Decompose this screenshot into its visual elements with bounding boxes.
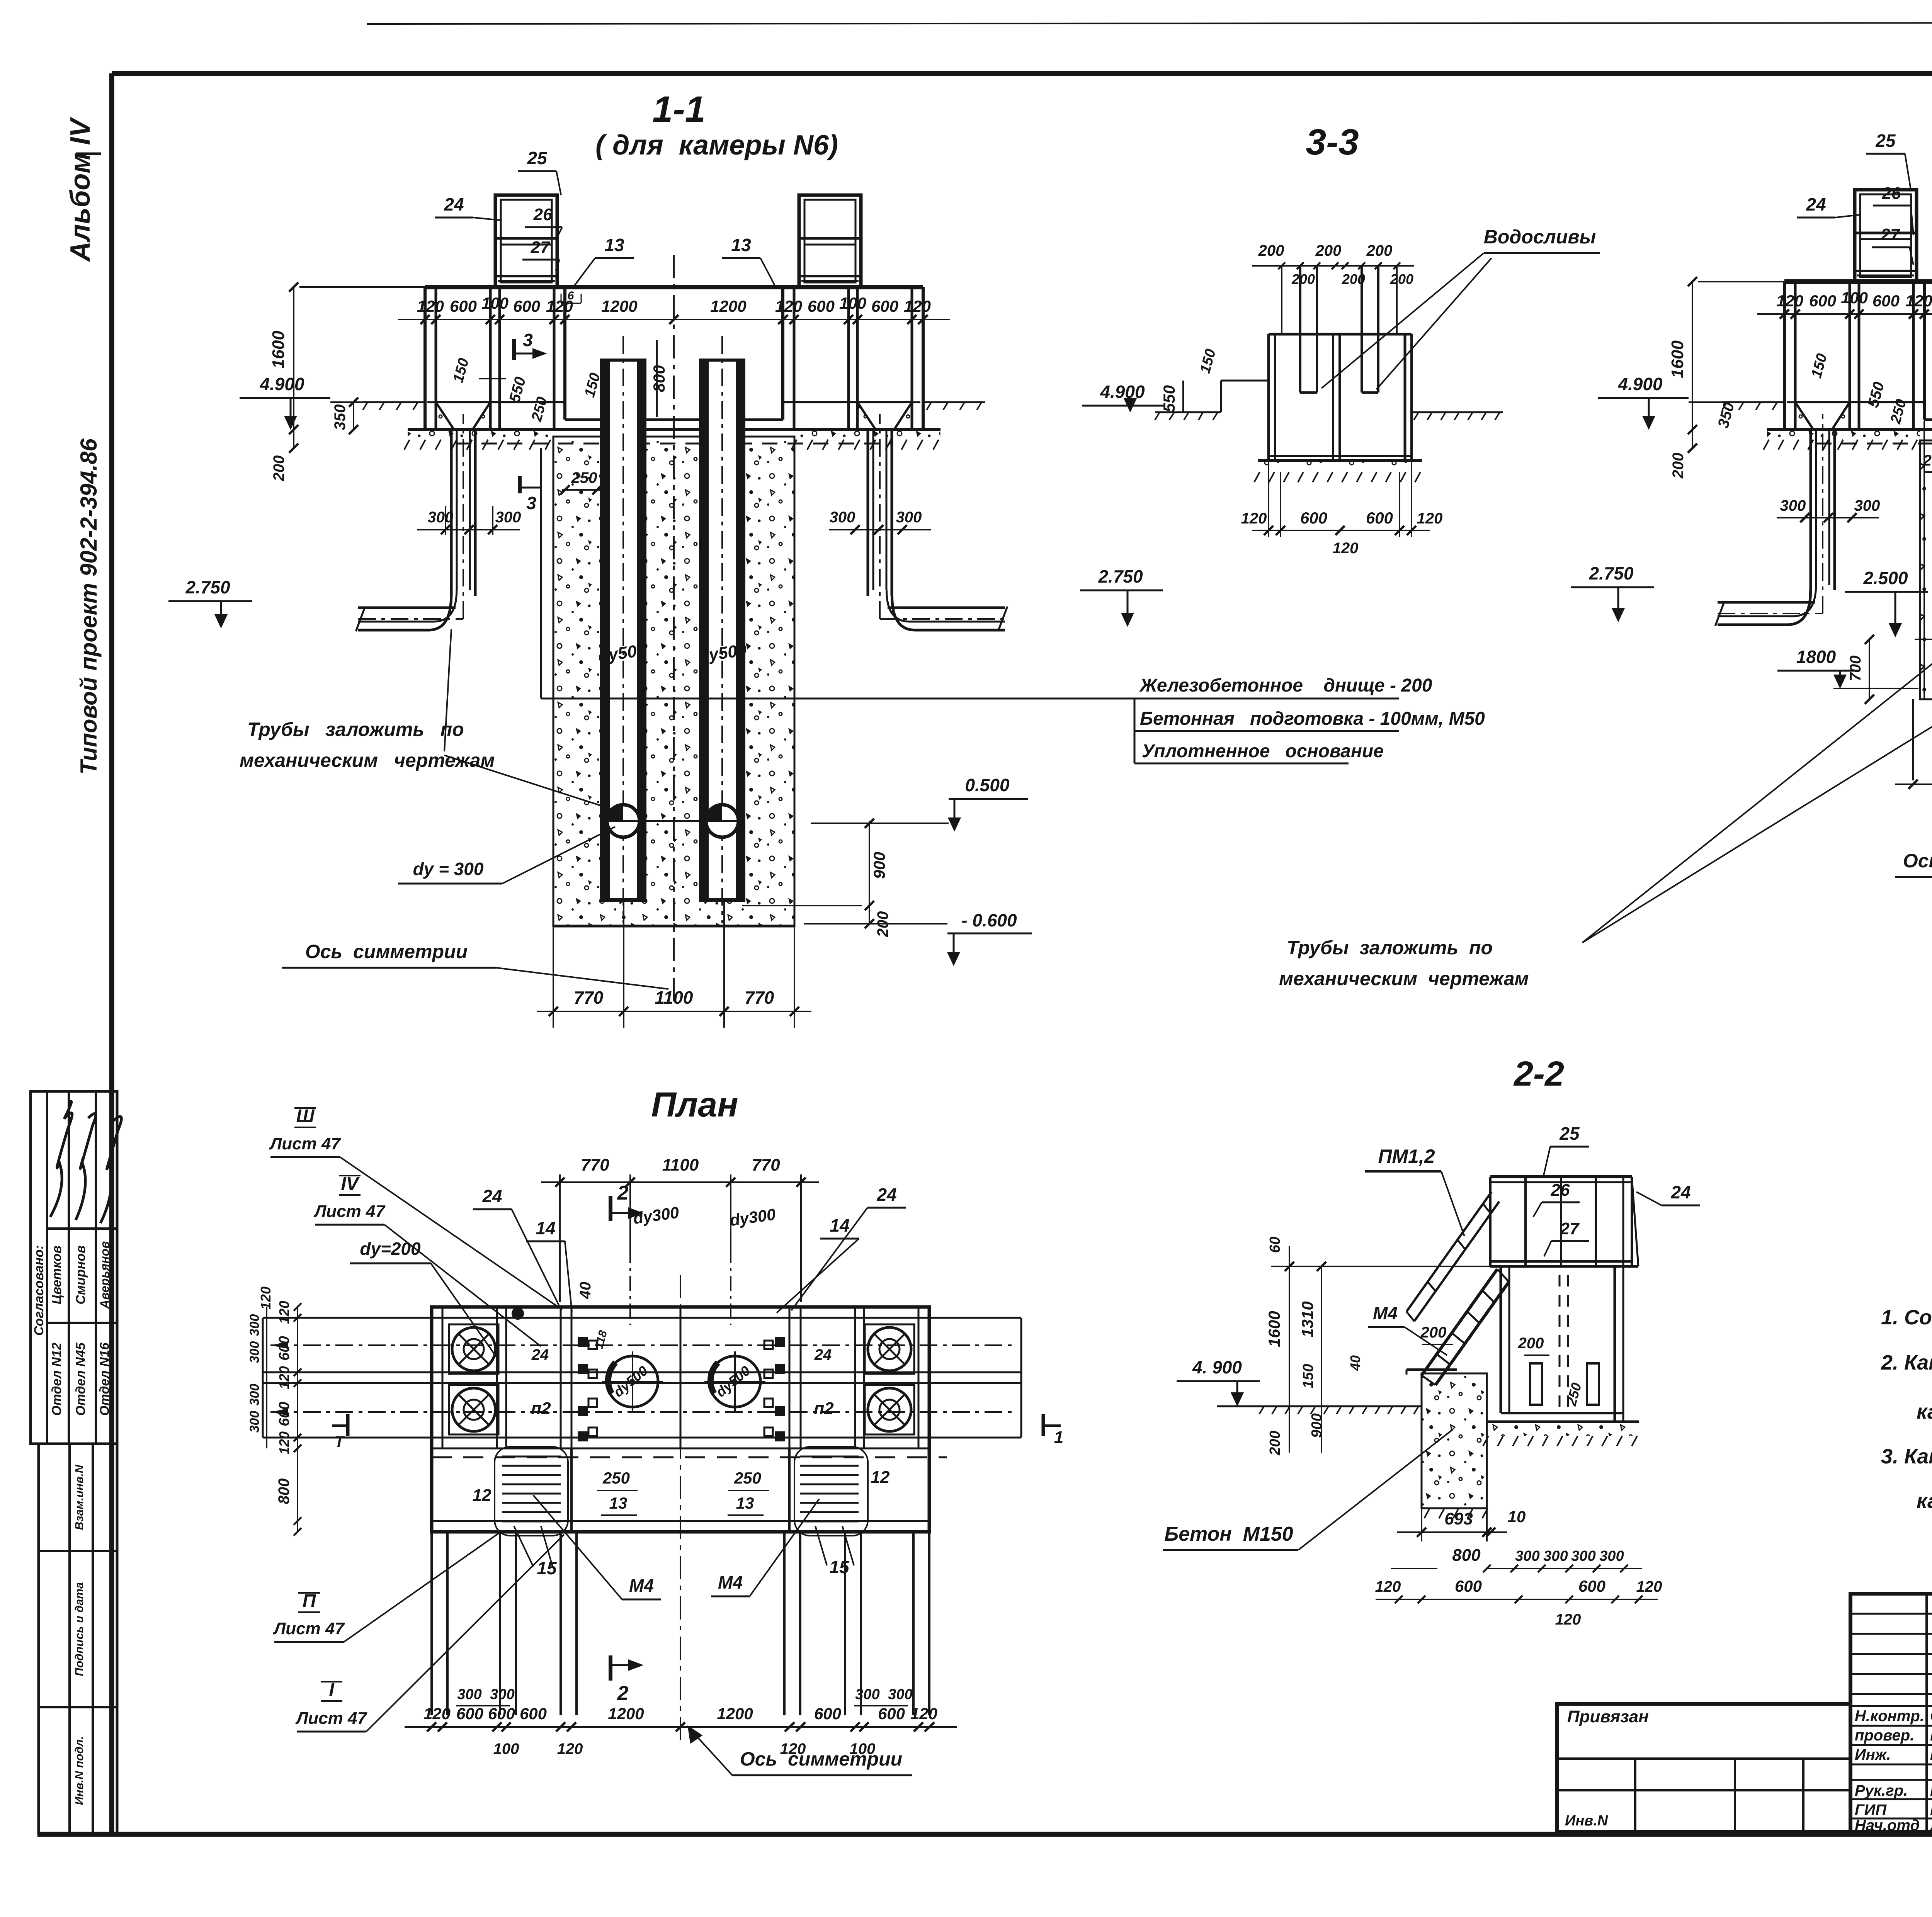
svg-text:Петропавловская: Петропавловская — [1930, 1750, 1932, 1762]
plan small squares inner walls — [588, 1341, 597, 1349]
2-2 concrete block — [1422, 1373, 1487, 1508]
svg-text:600: 600 — [808, 297, 835, 315]
svg-text:600: 600 — [1300, 509, 1327, 527]
svg-text:300: 300 — [1571, 1548, 1595, 1564]
svg-text:1200: 1200 — [710, 297, 746, 315]
svg-text:120: 120 — [910, 1705, 937, 1723]
ground surface marks — [363, 403, 367, 410]
plan hatch squares — [578, 1337, 588, 1347]
inlet funnel hopper — [427, 401, 499, 403]
svg-text:провер.: провер. — [1855, 1727, 1914, 1744]
svg-text:300: 300 — [830, 509, 855, 526]
svg-text:25: 25 — [1559, 1123, 1580, 1144]
2-2 foundation strip — [1487, 1424, 1639, 1436]
svg-text:600: 600 — [1809, 292, 1836, 310]
plan top dims 770 1100 770 — [559, 1174, 561, 1302]
stamp signatures — [50, 1101, 72, 1217]
svg-text:600: 600 — [1455, 1577, 1482, 1595]
dims 300 300 left — [417, 529, 520, 530]
svg-text:300: 300 — [855, 1686, 879, 1703]
title block signature grid — [1850, 1594, 1932, 1832]
svg-text:3. Камера N12 расход акти: 3. Камера N12 расход активного ила на — [1881, 1445, 1932, 1468]
svg-text:300: 300 — [490, 1686, 514, 1703]
svg-text:12: 12 — [473, 1486, 492, 1505]
plan outer walls — [432, 1307, 929, 1532]
svg-text:200: 200 — [1518, 1335, 1544, 1352]
svg-text:300: 300 — [1854, 497, 1880, 514]
plan section 1-1 cut marks — [346, 1414, 350, 1436]
svg-text:Сапунова: Сапунова — [1930, 1708, 1932, 1725]
channel floors — [1795, 401, 1924, 403]
svg-text:Альтшуллер: Альтшуллер — [1930, 1820, 1932, 1833]
svg-text:300: 300 — [1599, 1548, 1624, 1564]
svg-text:dy = 300: dy = 300 — [413, 859, 484, 879]
svg-text:2.750: 2.750 — [185, 577, 230, 597]
2-2 left dims — [1289, 1246, 1290, 1453]
svg-text:Инж.: Инж. — [1855, 1746, 1891, 1763]
svg-text:200: 200 — [1366, 242, 1393, 259]
plan ladders M4 — [502, 1456, 561, 1458]
dims 300 300 left pair — [1777, 517, 1879, 518]
ground surface marks — [1259, 1407, 1264, 1414]
ground surface marks — [1414, 413, 1418, 420]
leaders to outlet holes — [1582, 639, 1932, 943]
svg-text:1600: 1600 — [269, 331, 288, 369]
svg-text:300: 300 — [888, 1686, 912, 1703]
svg-text:600: 600 — [1872, 292, 1900, 310]
svg-text:27: 27 — [1560, 1219, 1580, 1238]
plan channel centerlines with flow — [270, 1344, 1012, 1346]
bottom dimension 770 1100 770 — [553, 926, 554, 1028]
svg-text:Гарбуз: Гарбуз — [1930, 1782, 1932, 1799]
svg-text:24: 24 — [1806, 194, 1826, 214]
svg-text:300: 300 — [896, 509, 922, 526]
svg-text:dy=200: dy=200 — [360, 1239, 421, 1259]
pipe centerline — [1718, 613, 1823, 614]
svg-text:Лист 47: Лист 47 — [273, 1619, 345, 1638]
3-3 footing — [1258, 461, 1422, 472]
section cut flag 3 upper — [512, 339, 516, 360]
svg-text:800: 800 — [276, 1479, 293, 1504]
svg-text:п2: п2 — [531, 1399, 551, 1418]
svg-text:600: 600 — [1366, 509, 1393, 527]
dim 350 — [353, 402, 354, 430]
svg-text:693: 693 — [1444, 1509, 1473, 1528]
3-3 bottom dims — [1268, 461, 1269, 537]
svg-text:1100: 1100 — [662, 1156, 699, 1174]
svg-text:200: 200 — [1258, 242, 1284, 259]
svg-text:2.500: 2.500 — [1863, 568, 1908, 588]
paper top edge — [367, 22, 1932, 24]
svg-text:4.900: 4.900 — [259, 374, 304, 394]
outside ground ledge right — [923, 401, 985, 403]
svg-text:Аверьянов: Аверьянов — [98, 1241, 112, 1309]
svg-text:Привязан: Привязан — [1567, 1707, 1649, 1726]
svg-text:25: 25 — [527, 148, 548, 168]
ground surface marks — [927, 403, 931, 410]
svg-text:1800: 1800 — [1796, 647, 1836, 667]
chamber wall lines through block — [1923, 421, 1925, 699]
plan shaft circles left — [452, 1327, 495, 1371]
inlet funnel hopper — [849, 401, 920, 403]
svg-text:4.900: 4.900 — [1100, 382, 1145, 402]
svg-text:600: 600 — [520, 1705, 547, 1723]
stamp table sign-off block — [31, 1091, 117, 1444]
shallow concrete block — [1920, 440, 1932, 699]
svg-text:120: 120 — [775, 297, 802, 315]
svg-text:1600: 1600 — [1668, 340, 1687, 378]
2-2 platform deck — [1490, 1175, 1632, 1178]
3-3 box walls — [1267, 334, 1270, 461]
section top slab line — [425, 285, 923, 289]
svg-text:Железобетонное днище - 200: Железобетонное днище - 200 — [1139, 675, 1432, 696]
svg-text:120: 120 — [417, 297, 444, 315]
2-2 ladder — [1422, 1269, 1497, 1375]
svg-text:М4: М4 — [718, 1572, 743, 1592]
svg-text:ГИП: ГИП — [1855, 1801, 1887, 1818]
svg-text:200: 200 — [270, 455, 287, 482]
svg-text:I: I — [329, 1680, 335, 1700]
svg-text:Трубы заложить по: Трубы заложить по — [247, 719, 464, 740]
svg-text:1-1: 1-1 — [652, 89, 705, 130]
svg-text:Рук.гр.: Рук.гр. — [1855, 1782, 1908, 1799]
svg-text:( для камеры N6): ( для камеры N6) — [595, 130, 838, 161]
svg-text:2-2: 2-2 — [1513, 1055, 1564, 1093]
svg-text:900: 900 — [870, 852, 888, 879]
svg-text:Ш: Ш — [296, 1106, 315, 1127]
svg-text:Цветков: Цветков — [49, 1246, 64, 1304]
svg-text:600: 600 — [450, 297, 477, 315]
svg-text:Уплотненное основание: Уплотненное основание — [1142, 741, 1384, 761]
svg-text:26: 26 — [1551, 1181, 1570, 1200]
dimension row — [1757, 313, 1932, 315]
svg-text:3: 3 — [523, 330, 533, 350]
plan left dim column — [297, 1307, 298, 1532]
svg-text:200: 200 — [1420, 1324, 1447, 1341]
outside ground ledge left — [363, 401, 425, 403]
3-3 weir channels — [1299, 266, 1301, 393]
svg-text:Н.контр.: Н.контр. — [1855, 1708, 1924, 1725]
chimney box element 25/26/27 — [495, 195, 557, 287]
svg-text:800: 800 — [650, 365, 668, 392]
svg-text:2.750: 2.750 — [1588, 563, 1634, 583]
svg-text:Подпись и дата: Подпись и дата — [73, 1582, 86, 1676]
svg-text:120: 120 — [780, 1740, 806, 1757]
svg-text:120: 120 — [423, 1705, 451, 1723]
svg-text:24: 24 — [876, 1185, 896, 1205]
svg-text:300: 300 — [1543, 1548, 1568, 1564]
svg-text:300: 300 — [1780, 497, 1806, 514]
svg-text:Бетон М150: Бетон М150 — [1164, 1523, 1293, 1545]
svg-text:24: 24 — [482, 1186, 502, 1206]
svg-text:250: 250 — [734, 1469, 761, 1487]
ground hatch — [791, 440, 797, 450]
riser pipe with elbow — [450, 430, 453, 596]
svg-text:200: 200 — [1291, 271, 1315, 287]
svg-text:24: 24 — [1670, 1182, 1690, 1202]
svg-text:М4: М4 — [1373, 1303, 1398, 1323]
svg-text:26: 26 — [533, 205, 553, 224]
pipe centerline — [358, 618, 463, 620]
svg-text:камеру. до 90: камеру. до 90 — [1917, 1400, 1932, 1423]
2-2 chamber walls — [1500, 1266, 1502, 1413]
svg-text:550: 550 — [1160, 385, 1178, 412]
svg-text:120: 120 — [1905, 292, 1932, 310]
svg-text:770: 770 — [574, 987, 604, 1008]
svg-text:250: 250 — [1923, 452, 1932, 469]
svg-text:Лист 47: Лист 47 — [313, 1202, 386, 1221]
svg-text:150: 150 — [1300, 1364, 1316, 1388]
svg-text:1: 1 — [1054, 1428, 1063, 1447]
svg-text:Водосливы: Водосливы — [1484, 226, 1596, 248]
axis of symmetry centerline — [673, 255, 675, 1004]
dims 300 300 right — [829, 529, 931, 530]
svg-text:Инв.N подл.: Инв.N подл. — [73, 1736, 86, 1805]
section walls — [423, 287, 427, 430]
ground surface marks — [1722, 403, 1726, 410]
svg-text:2. Камера N6 - расход активн: 2. Камера N6 - расход активного ила на — [1881, 1351, 1932, 1374]
svg-text:10: 10 — [1508, 1507, 1526, 1526]
svg-text:100: 100 — [493, 1740, 519, 1757]
channel floors — [436, 401, 565, 403]
svg-text:60: 60 — [1267, 1237, 1283, 1253]
svg-text:770: 770 — [581, 1156, 609, 1174]
svg-text:13: 13 — [731, 235, 751, 255]
svg-text:120: 120 — [276, 1301, 292, 1324]
dimension row — [405, 1726, 957, 1728]
section walls — [1783, 282, 1786, 430]
svg-text:Альбом IV: Альбом IV — [65, 116, 96, 262]
svg-text:механическим чертежам: механическим чертежам — [1279, 968, 1529, 989]
svg-text:Ось симметрии: Ось симметрии — [305, 941, 468, 962]
svg-text:1310: 1310 — [1298, 1301, 1316, 1337]
left vertical dims 1600 200 — [293, 287, 294, 448]
svg-text:ПМ1,2: ПМ1,2 — [1378, 1145, 1435, 1167]
svg-text:770: 770 — [752, 1156, 780, 1174]
svg-text:250: 250 — [571, 469, 597, 486]
dimension row — [398, 319, 950, 320]
svg-text:300: 300 — [247, 1384, 262, 1406]
svg-text:600: 600 — [488, 1705, 515, 1723]
column bottom line — [553, 925, 794, 928]
2-2 ground left — [1217, 1405, 1422, 1407]
svg-text:100: 100 — [481, 294, 509, 312]
plan left wing channels — [263, 1317, 432, 1319]
svg-text:40: 40 — [1347, 1355, 1363, 1371]
svg-text:300: 300 — [495, 509, 521, 526]
svg-text:IV: IV — [341, 1174, 360, 1194]
svg-text:300: 300 — [428, 509, 454, 526]
svg-text:15: 15 — [537, 1558, 557, 1578]
svg-text:камеру до 90: камеру до 90 — [1917, 1489, 1932, 1513]
svg-text:27: 27 — [531, 238, 551, 257]
svg-text:600: 600 — [871, 297, 898, 315]
svg-text:120: 120 — [904, 297, 931, 315]
svg-text:Бетонная подготовка - 100мм,: Бетонная подготовка - 100мм, М50 — [1140, 709, 1485, 729]
plan vertical wall lines — [442, 1307, 444, 1448]
svg-text:300: 300 — [247, 1411, 262, 1433]
svg-text:200: 200 — [1342, 271, 1365, 287]
svg-text:Нач.отд: Нач.отд — [1855, 1817, 1920, 1834]
svg-text:Смирнов: Смирнов — [73, 1245, 88, 1304]
svg-text:200: 200 — [874, 911, 891, 938]
svg-text:600: 600 — [1578, 1577, 1605, 1595]
leader lines to pipe and hole — [444, 755, 620, 812]
shaft right dy500 — [699, 360, 745, 898]
svg-text:3: 3 — [526, 493, 536, 513]
svg-text:200: 200 — [1267, 1431, 1283, 1455]
svg-text:24: 24 — [444, 194, 464, 214]
svg-text:Ось симметрии: Ось симметрии — [1903, 850, 1932, 872]
plan shaft circles right — [868, 1327, 911, 1371]
2-2 ladder railing — [1406, 1192, 1492, 1312]
title block left attachment box — [1557, 1704, 1850, 1832]
outlet hole dy300 left — [607, 805, 639, 837]
svg-text:2: 2 — [617, 1682, 629, 1705]
svg-text:Отдел N45: Отдел N45 — [73, 1342, 88, 1416]
pipe centerline — [880, 618, 1005, 620]
ground hatch — [1483, 1436, 1488, 1446]
svg-text:Инв.N: Инв.N — [1565, 1813, 1609, 1829]
dashed recess line — [1816, 443, 1932, 445]
svg-text:120: 120 — [1555, 1611, 1581, 1628]
svg-text:12: 12 — [871, 1468, 890, 1487]
svg-text:120: 120 — [1333, 540, 1359, 557]
chimney box element 25/26/27 — [1855, 190, 1917, 282]
svg-text:Лист 47: Лист 47 — [269, 1134, 341, 1153]
svg-text:- 0.600: - 0.600 — [961, 910, 1017, 930]
svg-text:700: 700 — [1847, 656, 1864, 681]
sheet border frame — [112, 71, 1932, 76]
svg-text:3-3: 3-3 — [1306, 122, 1359, 163]
plan horizontal wall lines — [432, 1317, 929, 1319]
svg-text:120: 120 — [276, 1431, 292, 1455]
shaft left dy500 — [600, 360, 646, 898]
svg-text:200: 200 — [1390, 271, 1413, 287]
2-2 chamber centerline dashed — [1559, 1275, 1561, 1414]
svg-text:13: 13 — [609, 1494, 628, 1512]
block bottom dims 770 1100 770 — [1912, 699, 1914, 780]
deep concrete column — [553, 437, 794, 926]
svg-text:120: 120 — [258, 1286, 274, 1310]
chimney box element 25/26/27 — [799, 195, 861, 287]
svg-text:1600: 1600 — [1265, 1311, 1283, 1347]
svg-text:13: 13 — [736, 1494, 754, 1512]
svg-text:200: 200 — [1670, 453, 1687, 479]
svg-text:0.500: 0.500 — [965, 775, 1010, 795]
svg-text:2.750: 2.750 — [1098, 566, 1143, 586]
plan right wing channels — [929, 1317, 1021, 1319]
plan lower channel dashed centerline — [432, 1456, 947, 1458]
svg-text:300: 300 — [1515, 1548, 1539, 1564]
svg-text:25: 25 — [1875, 131, 1896, 151]
svg-text:300: 300 — [247, 1341, 262, 1363]
shaft bottom caps — [600, 898, 646, 902]
inlet funnel hopper — [1787, 401, 1858, 403]
svg-text:Отдел N12: Отдел N12 — [49, 1343, 64, 1416]
stamp table inventory block — [39, 1444, 117, 1834]
svg-text:План: План — [651, 1086, 738, 1124]
svg-text:200: 200 — [1315, 242, 1342, 259]
svg-text:механическим чертежам: механическим чертежам — [240, 749, 495, 771]
svg-text:4. 900: 4. 900 — [1192, 1357, 1242, 1377]
vertical dim 900 200 — [869, 821, 870, 924]
svg-text:1200: 1200 — [717, 1705, 753, 1723]
2-2 bottom dims 120 600 600 120 — [1376, 1599, 1658, 1600]
svg-text:120: 120 — [557, 1740, 583, 1757]
svg-text:600: 600 — [513, 297, 540, 315]
svg-text:120: 120 — [1241, 510, 1267, 527]
svg-text:2: 2 — [617, 1182, 629, 1204]
3-3 ground and ledge — [1221, 380, 1269, 382]
plan center axis — [680, 1275, 681, 1746]
outlet hole dy300 right — [706, 805, 738, 837]
foundation slab bottom — [408, 428, 940, 431]
svg-text:27: 27 — [1881, 225, 1901, 244]
foundation slab bottom — [1767, 428, 1932, 431]
svg-text:350: 350 — [332, 404, 349, 430]
svg-text:300: 300 — [247, 1314, 262, 1336]
svg-text:Согласовано:: Согласовано: — [32, 1245, 46, 1336]
2-2 bottom dims 693 10 — [1421, 1508, 1422, 1541]
svg-text:Ось симметрии: Ось симметрии — [740, 1748, 902, 1770]
svg-text:1100: 1100 — [655, 987, 693, 1008]
svg-text:14: 14 — [830, 1215, 849, 1236]
svg-text:15: 15 — [829, 1557, 850, 1577]
svg-text:1200: 1200 — [608, 1705, 644, 1723]
svg-text:1200: 1200 — [601, 297, 637, 315]
svg-text:770: 770 — [745, 987, 774, 1008]
plan section marker 2 bottom — [609, 1655, 612, 1681]
shaft centerlines — [622, 336, 624, 923]
3-3 top dims 200 — [1252, 265, 1414, 267]
2-2 weir walls inside — [1530, 1363, 1542, 1405]
plan corner junction dot — [512, 1308, 523, 1319]
svg-text:М4: М4 — [629, 1575, 654, 1596]
svg-text:120: 120 — [1417, 510, 1443, 527]
svg-text:1. Совместно с данным с: 1. Совместно с данным см лл. КЖ-44,46,47… — [1881, 1306, 1932, 1329]
svg-text:120: 120 — [1636, 1578, 1662, 1595]
ground hatch — [404, 440, 410, 450]
svg-text:6: 6 — [568, 289, 574, 302]
riser pipe with elbow — [867, 430, 869, 596]
svg-text:Цирков: Цирков — [1930, 1801, 1932, 1818]
svg-text:П: П — [303, 1591, 316, 1611]
svg-text:100: 100 — [1841, 289, 1868, 307]
svg-text:Поткина: Поткина — [1930, 1727, 1932, 1744]
svg-text:24: 24 — [531, 1346, 549, 1363]
svg-text:Взам.инв.N: Взам.инв.N — [73, 1464, 86, 1530]
foundation strip left part — [1767, 430, 1920, 440]
svg-text:800: 800 — [1452, 1546, 1481, 1565]
ground hatch — [1764, 440, 1769, 450]
plan dy500 opening right — [709, 1356, 760, 1407]
plan lower channel walls — [430, 1532, 433, 1715]
svg-text:26: 26 — [1882, 184, 1901, 203]
svg-text:Отдел N16: Отдел N16 — [97, 1342, 112, 1416]
section top slab line — [1784, 279, 1932, 284]
plan dy500 opening left — [607, 1356, 658, 1407]
ground hatch — [1254, 472, 1260, 482]
svg-text:250: 250 — [602, 1469, 630, 1487]
svg-text:100: 100 — [839, 294, 866, 312]
svg-text:Лист 47: Лист 47 — [295, 1709, 367, 1728]
svg-text:100: 100 — [850, 1740, 876, 1757]
svg-text:24: 24 — [814, 1346, 832, 1363]
svg-text:120: 120 — [1776, 292, 1803, 310]
plan flow arrows left wing — [274, 1343, 287, 1348]
plan 300 300 dims bottom — [456, 1705, 510, 1706]
